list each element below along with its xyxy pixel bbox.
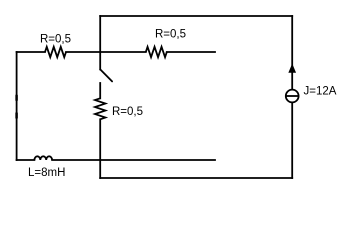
wire right vertical upper (top wire to current source) [291, 16, 293, 90]
current source J1 bar [286, 95, 299, 97]
current source J1 circle [286, 90, 299, 103]
svg-text:R=0,5: R=0,5 [155, 29, 186, 41]
wire between R1 and R2 [66, 51, 146, 53]
wire bottom horizontal [100, 177, 292, 179]
wire middle vertical upper (top wire to switch) [99, 16, 101, 69]
resistor R2 (R=0,5) [146, 47, 167, 57]
wire right vertical lower (current source to bottom) [291, 102, 293, 178]
wire bottom-left horizontal to inductor [17, 159, 35, 161]
wire right of R2 (open end) [167, 51, 215, 53]
svg-text:J=12A: J=12A [304, 86, 337, 98]
wire top horizontal [100, 15, 292, 17]
svg-text:R=0,5: R=0,5 [112, 106, 143, 118]
svg-text:R=0,5: R=0,5 [40, 34, 71, 46]
current-source arrow (direction up) [289, 65, 295, 72]
resistor R1 (R=0,5) [45, 47, 66, 57]
wire middle vertical lower (R3 to bottom) [99, 119, 101, 178]
svg-text:L=8mH: L=8mH [28, 167, 65, 179]
switch S (open blade) [100, 69, 112, 81]
node bulge upper on left wire [15, 96, 18, 101]
resistor R3 (R=0,5) vertical [95, 98, 105, 119]
inductor L (L=8mH) [34, 156, 52, 160]
wire right of inductor (open end) [52, 159, 215, 161]
wire switch lower contact to R3 [99, 83, 101, 98]
node bulge lower on left wire [15, 113, 18, 117]
wire left vertical branch [16, 52, 18, 160]
wire top-left horizontal segment [17, 51, 45, 53]
